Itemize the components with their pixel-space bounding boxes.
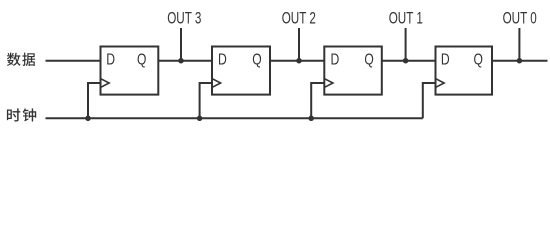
svg-text:Q: Q [252,51,261,68]
OUT 1 tap wire [405,28,407,61]
junction node OUT 0 [517,58,523,64]
clock riser wire FF3 [311,83,324,118]
clock riser wire FF1 [88,83,101,118]
OUT 2 tap wire [298,28,300,61]
svg-text:D: D [441,51,450,68]
svg-text:OUT 3: OUT 3 [167,8,201,27]
svg-text:OUT 1: OUT 1 [389,8,423,27]
junction node OUT 1 [403,58,409,64]
svg-text:Q: Q [137,51,146,68]
D flip-flop U1 box [101,47,159,95]
clock edge triangle U2 [212,79,221,88]
D flip-flop U2 box [212,47,270,95]
data input wire [46,60,101,62]
wire Q1 to D2 [158,60,212,62]
junction node OUT 2 [296,58,302,64]
svg-text:D: D [106,51,115,68]
svg-text:OUT 2: OUT 2 [282,8,316,27]
svg-text:OUT 0: OUT 0 [503,8,537,27]
junction node clock FF1 [85,116,91,122]
clock edge triangle U1 [101,79,110,88]
OUT 3 tap wire [180,28,182,61]
svg-text:Q: Q [364,51,373,68]
junction node clock FF3 [308,116,314,122]
clock bus wire [46,117,423,119]
clock edge triangle U3 [324,79,333,88]
clock riser wire FF4 [423,83,436,118]
svg-text:Q: Q [474,51,483,68]
wire Q4 output [492,60,548,62]
label char 据 (ju) [22,53,35,66]
label char 时 (shi) [7,108,20,121]
junction node clock FF2 [197,116,203,122]
label char 数 (shu) [7,53,21,66]
label char 钟 (zhong) [23,108,37,121]
junction node OUT 3 [178,58,184,64]
D flip-flop U3 box [324,47,382,95]
OUT 0 tap wire [518,28,520,61]
D flip-flop U4 box [436,47,493,95]
svg-text:D: D [218,51,227,68]
clock riser wire FF2 [200,83,212,118]
wire Q3 to D4 [382,60,436,62]
wire Q2 to D3 [270,60,324,62]
svg-text:D: D [331,51,340,68]
clock edge triangle U4 [436,79,445,88]
